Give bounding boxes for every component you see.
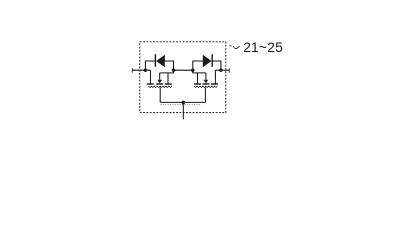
wire right external lead xyxy=(215,69,229,71)
transistor Q1 channel segment source xyxy=(165,83,172,85)
node left junction dot xyxy=(144,69,147,72)
node left-cell right junction dot xyxy=(172,69,175,72)
leader wave xyxy=(233,46,240,49)
transistor Q1 body arrow xyxy=(157,80,162,84)
diode D2 triangle xyxy=(203,55,212,67)
diode D1 cathode bar xyxy=(154,54,156,67)
wire left external lead xyxy=(132,69,150,71)
wire bottom lead xyxy=(182,102,184,119)
diode D1 right leg wire xyxy=(165,61,174,70)
diode D1 triangle xyxy=(156,55,165,67)
leader line to label xyxy=(229,45,231,47)
node gate bus junction dot xyxy=(182,101,186,105)
transistor Q1 body lead xyxy=(159,73,161,80)
transistor Q2 drain lead xyxy=(214,70,216,83)
dashed enclosure box xyxy=(140,42,226,113)
transistor Q1 gate lead xyxy=(159,87,161,102)
node right junction dot xyxy=(219,69,222,72)
transistor Q1 source tie wire xyxy=(160,70,174,73)
transistor Q2 body lead xyxy=(205,73,207,80)
terminal tick left xyxy=(131,68,133,72)
transistor Q1 gate zigzag xyxy=(149,86,172,88)
transistor Q2 body arrow xyxy=(204,80,209,84)
transistor Q2 gate lead xyxy=(204,87,206,102)
wire middle segment xyxy=(174,69,193,71)
terminal tick right xyxy=(228,68,230,72)
scan artifact dotted under bus xyxy=(161,103,202,105)
transistor Q1 drain lead xyxy=(150,70,152,83)
node right-cell left junction dot xyxy=(191,69,194,72)
transistor Q1 channel segment drain xyxy=(147,83,154,85)
transistor Q2 source tie wire xyxy=(193,70,206,73)
transistor Q1 source lead xyxy=(167,73,169,84)
svg-text:21~25: 21~25 xyxy=(243,40,283,55)
transistor Q2 channel segment body xyxy=(202,83,209,85)
transistor Q2 channel segment source xyxy=(194,83,201,85)
diode D1 left leg wire xyxy=(145,61,155,70)
transistor Q1 channel segment body xyxy=(156,83,163,85)
diode D2 right leg wire xyxy=(212,61,221,70)
transistor Q2 gate zigzag xyxy=(194,86,217,88)
diode D2 left leg wire xyxy=(193,61,203,70)
wire gate bus xyxy=(160,101,205,103)
diode D2 cathode bar xyxy=(211,54,213,67)
transistor Q2 channel segment drain xyxy=(211,83,218,85)
transistor Q2 source lead xyxy=(197,73,199,84)
